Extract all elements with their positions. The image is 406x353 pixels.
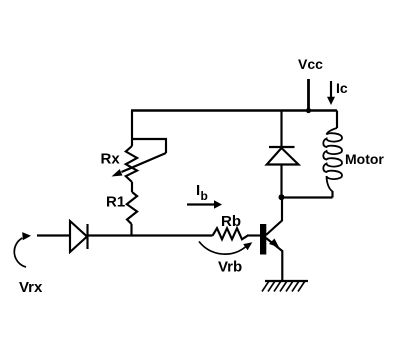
voltage arc Vrb <box>199 242 246 255</box>
diode D1 cathode bar <box>86 224 88 249</box>
node junction dot Vcc/bus <box>306 108 311 113</box>
current arrow Ib <box>187 200 222 208</box>
flyback diode D2 triangle <box>267 148 299 165</box>
svg-text:R1: R1 <box>106 194 125 211</box>
motor coil windings <box>323 128 342 192</box>
svg-text:Vcc: Vcc <box>298 56 323 72</box>
svg-text:b: b <box>201 189 208 203</box>
current arrow Ic <box>327 81 335 105</box>
flyback diode D2 cathode bar <box>269 146 295 148</box>
Vcc supply lead <box>307 79 310 111</box>
flyback diode D2 top lead <box>280 111 282 147</box>
motor bottom lead <box>331 191 333 198</box>
wire input segment left of diode <box>37 234 70 236</box>
wire left rail down from bus <box>131 111 133 147</box>
motor top lead <box>336 111 338 129</box>
wire Rb to transistor base <box>247 234 260 236</box>
svg-text:Rb: Rb <box>221 213 241 230</box>
svg-text:Ic: Ic <box>336 80 348 96</box>
svg-text:Rx: Rx <box>101 151 121 168</box>
resistor Rb zigzag <box>213 228 248 239</box>
transistor Q1 emitter lead <box>266 238 282 281</box>
ground symbol <box>262 281 308 292</box>
svg-text:Vrb: Vrb <box>218 259 242 276</box>
wire between Rx and R1 <box>131 182 133 192</box>
resistor R1 zigzag <box>127 192 137 224</box>
flyback diode D2 bottom lead <box>280 165 282 198</box>
wire top bus from Rx rail to motor <box>131 109 337 111</box>
wire R1 bottom to main horizontal wire <box>130 224 132 236</box>
transistor Q1 base bar <box>260 224 266 255</box>
svg-text:Vrx: Vrx <box>19 279 43 296</box>
transistor Q1 collector lead <box>266 197 282 235</box>
voltage arc Vrx <box>14 238 26 267</box>
wire diode bottom to motor bottom <box>282 196 333 198</box>
svg-text:Motor: Motor <box>345 151 384 167</box>
wire diode to Rb <box>88 234 213 236</box>
diode D1 input triangle <box>70 221 87 252</box>
node junction dot collector/diode/motor <box>279 194 285 200</box>
transistor Q1 emitter arrowhead <box>269 239 279 248</box>
rheostat wiper connection of Rx <box>132 139 166 153</box>
resistor Rx zigzag <box>126 146 137 182</box>
